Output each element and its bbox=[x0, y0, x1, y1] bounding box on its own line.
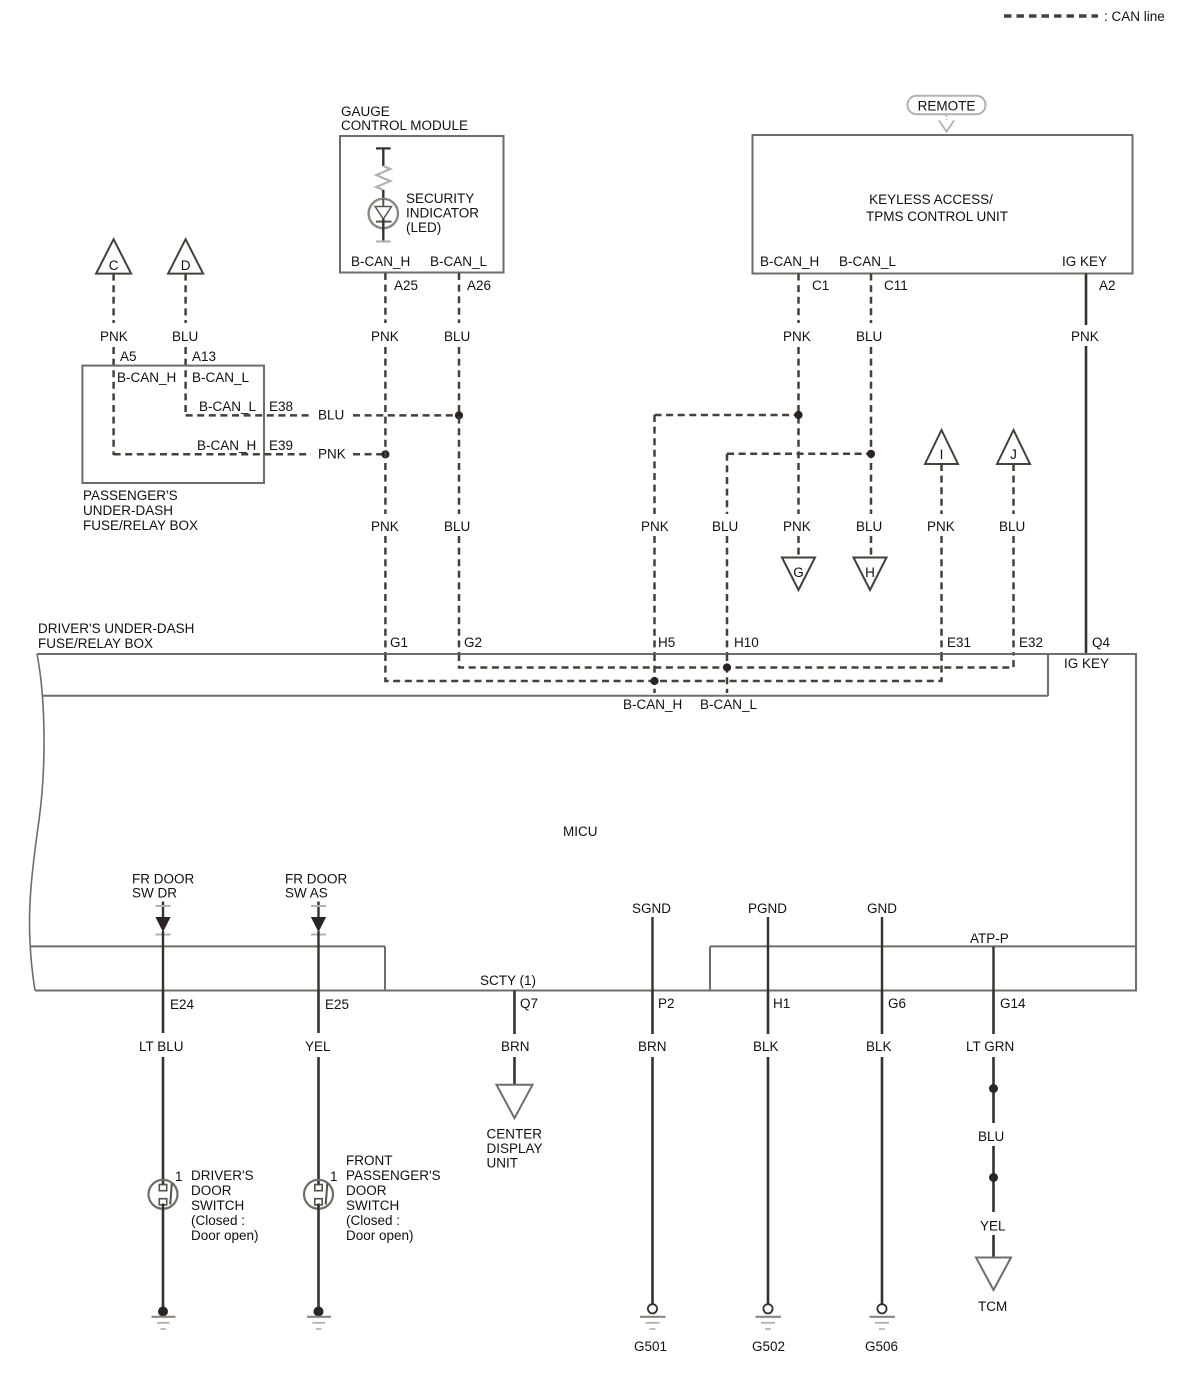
wire horizontal PNK row to H5 bbox=[655, 414, 799, 417]
gauge pin B-CAN_L A26 bbox=[430, 254, 491, 293]
wire resistor to LED bbox=[382, 190, 384, 199]
svg-text:SCTY (1): SCTY (1) bbox=[480, 973, 536, 988]
svg-text:PGND: PGND bbox=[748, 901, 787, 916]
svg-text:B-CAN_H: B-CAN_H bbox=[117, 370, 176, 385]
svg-text:FR DOOR: FR DOOR bbox=[132, 872, 194, 887]
svg-text:TCM: TCM bbox=[978, 1299, 1007, 1314]
gauge pin B-CAN_H A25 bbox=[351, 254, 418, 293]
svg-text:FUSE/RELAY BOX: FUSE/RELAY BOX bbox=[38, 636, 153, 651]
inner partition line of driver box top band bbox=[42, 654, 1109, 696]
svg-text:BLU: BLU bbox=[856, 329, 882, 344]
keyless pin IG KEY A2 bbox=[1062, 254, 1116, 293]
B-CAN_L bus (upper, BLU) G2-H10-E32 bbox=[459, 654, 1014, 668]
ground G506 bbox=[865, 1304, 898, 1354]
junction dot H10 on B-CAN_L bus bbox=[723, 663, 731, 671]
svg-text:J: J bbox=[1010, 447, 1017, 462]
wire horizontal BLU row to H10 bbox=[727, 453, 871, 456]
svg-text:G2: G2 bbox=[464, 635, 482, 650]
svg-text:H1: H1 bbox=[773, 996, 790, 1011]
svg-text:ATP-P: ATP-P bbox=[970, 931, 1009, 946]
svg-text:A13: A13 bbox=[192, 349, 216, 364]
H5 stub wire B-CAN_H bbox=[623, 654, 682, 712]
svg-text:C1: C1 bbox=[812, 278, 829, 293]
wire H1 BLK to ground G502 bbox=[753, 991, 790, 1305]
svg-text:A2: A2 bbox=[1099, 278, 1116, 293]
svg-text:PNK: PNK bbox=[371, 519, 399, 534]
wire J BLU to E32 bbox=[999, 464, 1043, 654]
junction dot H5 on B-CAN_H bus bbox=[650, 677, 658, 685]
svg-text:SECURITY: SECURITY bbox=[406, 191, 474, 206]
connector I triangle bbox=[925, 430, 958, 464]
svg-text:B-CAN_H: B-CAN_H bbox=[197, 438, 256, 453]
driver's under-dash fuse/relay box outline bbox=[29, 621, 1136, 991]
svg-text:G1: G1 bbox=[390, 635, 408, 650]
svg-text:BRN: BRN bbox=[501, 1039, 530, 1054]
front passenger's door switch S2 bbox=[304, 1153, 441, 1243]
svg-text:YEL: YEL bbox=[305, 1039, 331, 1054]
pin ATP-P label and wire bbox=[970, 931, 1009, 991]
svg-text:PNK: PNK bbox=[783, 329, 811, 344]
svg-text:MICU: MICU bbox=[563, 824, 598, 839]
connector D triangle bbox=[168, 239, 203, 273]
svg-text:D: D bbox=[181, 258, 191, 273]
wire B-CAN_L E38 BLU horizontal bbox=[186, 399, 459, 423]
junction dot E38/BLU at A26 wire bbox=[455, 411, 463, 419]
svg-text:SGND: SGND bbox=[632, 901, 671, 916]
B-CAN_H bus (lower, PNK) G1-H5-E31 bbox=[385, 654, 941, 681]
svg-text:GND: GND bbox=[867, 901, 897, 916]
LED security indicator bbox=[369, 199, 398, 228]
pin SCTY (1) label bbox=[480, 973, 536, 988]
svg-text:IG KEY: IG KEY bbox=[1064, 656, 1109, 671]
svg-text:DRIVER'S UNDER-DASH: DRIVER'S UNDER-DASH bbox=[38, 621, 194, 636]
wire A25 PNK vertical to G1 bbox=[371, 273, 408, 654]
svg-text:B-CAN_L: B-CAN_L bbox=[192, 370, 250, 385]
svg-text:DRIVER'S: DRIVER'S bbox=[191, 1168, 254, 1183]
svg-text:FUSE/RELAY BOX: FUSE/RELAY BOX bbox=[83, 518, 198, 533]
connector G triangle bbox=[782, 558, 815, 591]
svg-text:A5: A5 bbox=[120, 349, 137, 364]
wire YEL segment bbox=[980, 1219, 1006, 1258]
svg-text:PNK: PNK bbox=[641, 519, 669, 534]
svg-text:B-CAN_H: B-CAN_H bbox=[351, 254, 410, 269]
svg-text:B-CAN_H: B-CAN_H bbox=[623, 697, 682, 712]
svg-text:PNK: PNK bbox=[783, 519, 811, 534]
passenger under-dash fuse/relay box bbox=[82, 366, 264, 533]
svg-text:REMOTE: REMOTE bbox=[918, 99, 976, 114]
svg-text:P2: P2 bbox=[658, 996, 675, 1011]
svg-text:G501: G501 bbox=[634, 1339, 667, 1354]
wire switch to ground bbox=[162, 1204, 165, 1312]
svg-text:A26: A26 bbox=[467, 278, 491, 293]
svg-text:SWITCH: SWITCH bbox=[346, 1198, 399, 1213]
svg-text:UNIT: UNIT bbox=[487, 1156, 519, 1171]
svg-text:LT BLU: LT BLU bbox=[139, 1039, 184, 1054]
svg-text:KEYLESS ACCESS/: KEYLESS ACCESS/ bbox=[869, 192, 993, 207]
gauge control module box bbox=[340, 104, 504, 273]
wire G6 BLK to ground G506 bbox=[866, 991, 906, 1305]
svg-text:C11: C11 bbox=[884, 278, 908, 293]
wire A26 BLU vertical to G2 bbox=[444, 273, 482, 654]
svg-text:E25: E25 bbox=[325, 997, 349, 1012]
svg-text:BLU: BLU bbox=[856, 519, 882, 534]
wire E24 LT BLU to driver door switch bbox=[139, 991, 195, 1186]
FR DOOR SW DR input arrow bbox=[132, 872, 194, 991]
svg-text:CONTROL MODULE: CONTROL MODULE bbox=[341, 118, 468, 133]
junction dot E39/PNK at A25 wire bbox=[381, 450, 389, 458]
wire H10 vertical BLU bbox=[712, 454, 759, 654]
svg-text:: CAN line: : CAN line bbox=[1104, 9, 1165, 24]
svg-text:BLU: BLU bbox=[444, 329, 470, 344]
svg-text:Door open): Door open) bbox=[346, 1228, 414, 1243]
svg-text:G14: G14 bbox=[1000, 996, 1026, 1011]
wire Q7 BRN to center display unit bbox=[501, 991, 538, 1085]
svg-text:PNK: PNK bbox=[318, 447, 346, 462]
wire LED to bottom tick bbox=[376, 219, 391, 242]
keyless access / TPMS control unit box bbox=[753, 135, 1133, 274]
pin PGND label and wire bbox=[748, 901, 787, 991]
svg-text:B-CAN_L: B-CAN_L bbox=[199, 399, 257, 414]
svg-text:Q4: Q4 bbox=[1092, 635, 1111, 650]
svg-text:PNK: PNK bbox=[927, 519, 955, 534]
svg-text:UNDER-DASH: UNDER-DASH bbox=[83, 503, 173, 518]
svg-text:BLU: BLU bbox=[172, 329, 198, 344]
keyless pin B-CAN_H C1 bbox=[760, 254, 829, 293]
svg-text:B-CAN_L: B-CAN_L bbox=[430, 254, 488, 269]
svg-text:B-CAN_H: B-CAN_H bbox=[760, 254, 819, 269]
wire B-CAN_H E39 PNK horizontal bbox=[114, 438, 386, 462]
svg-text:FRONT: FRONT bbox=[346, 1153, 393, 1168]
svg-text:PASSENGER'S: PASSENGER'S bbox=[83, 488, 178, 503]
svg-text:E38: E38 bbox=[269, 399, 293, 414]
wire IG KEY A2 to Q4 solid PNK bbox=[1071, 274, 1111, 655]
legend: CAN line bbox=[1004, 9, 1165, 24]
pin SGND label and wire bbox=[632, 901, 671, 991]
pin GND label and wire bbox=[867, 901, 897, 991]
svg-text:(Closed :: (Closed : bbox=[191, 1213, 245, 1228]
svg-text:BLU: BLU bbox=[318, 408, 344, 423]
FR DOOR SW AS input arrow bbox=[285, 872, 347, 991]
svg-text:BLU: BLU bbox=[444, 519, 470, 534]
H10 stub wire B-CAN_L bbox=[700, 654, 758, 712]
svg-text:CENTER: CENTER bbox=[487, 1127, 543, 1142]
svg-text:SW AS: SW AS bbox=[285, 886, 328, 901]
svg-text:1: 1 bbox=[175, 1169, 183, 1184]
wire switch to ground bbox=[317, 1204, 320, 1312]
svg-text:B-CAN_L: B-CAN_L bbox=[839, 254, 897, 269]
svg-text:G6: G6 bbox=[888, 996, 906, 1011]
svg-text:PNK: PNK bbox=[100, 329, 128, 344]
svg-text:GAUGE: GAUGE bbox=[341, 104, 390, 119]
resistor (security indicator series resistor) bbox=[376, 166, 390, 190]
connector C triangle bbox=[96, 239, 131, 273]
right sub-module box (grounds/ATP-P) bbox=[710, 946, 1136, 990]
svg-text:BLK: BLK bbox=[753, 1039, 779, 1054]
svg-text:SW DR: SW DR bbox=[132, 886, 177, 901]
svg-text:(Closed :: (Closed : bbox=[346, 1213, 400, 1228]
svg-text:FR DOOR: FR DOOR bbox=[285, 872, 347, 887]
wire E25 YEL to front passenger door switch bbox=[305, 991, 349, 1186]
svg-text:BLU: BLU bbox=[999, 519, 1025, 534]
connector J triangle bbox=[997, 430, 1030, 464]
svg-text:C: C bbox=[109, 258, 119, 273]
splice dot (LT GRN to BLU) bbox=[989, 1084, 998, 1093]
svg-text:DOOR: DOOR bbox=[346, 1183, 387, 1198]
center display unit triangle bbox=[487, 1085, 543, 1171]
keyless pin B-CAN_L C11 bbox=[839, 254, 908, 293]
junction dot C1 PNK bbox=[794, 411, 802, 419]
svg-text:E24: E24 bbox=[170, 997, 195, 1012]
REMOTE antenna balloon bbox=[908, 96, 986, 132]
label security indicator bbox=[406, 191, 479, 235]
svg-text:B-CAN_L: B-CAN_L bbox=[700, 697, 758, 712]
svg-text:BLK: BLK bbox=[866, 1039, 892, 1054]
svg-text:LT GRN: LT GRN bbox=[966, 1039, 1014, 1054]
wire C1 PNK vertical bbox=[783, 274, 811, 558]
svg-text:Q7: Q7 bbox=[520, 996, 538, 1011]
svg-text:H5: H5 bbox=[658, 635, 675, 650]
svg-text:A25: A25 bbox=[394, 278, 418, 293]
svg-text:INDICATOR: INDICATOR bbox=[406, 206, 479, 221]
TCM triangle bbox=[976, 1258, 1011, 1315]
svg-text:E31: E31 bbox=[947, 635, 971, 650]
svg-text:PNK: PNK bbox=[371, 329, 399, 344]
svg-text:(LED): (LED) bbox=[406, 220, 441, 235]
svg-text:PASSENGER'S: PASSENGER'S bbox=[346, 1168, 441, 1183]
wire internal to security indicator bbox=[376, 148, 391, 166]
driver's door switch S1 bbox=[149, 1168, 259, 1243]
svg-text:Door open): Door open) bbox=[191, 1228, 259, 1243]
svg-text:H: H bbox=[865, 565, 875, 580]
svg-text:DISPLAY: DISPLAY bbox=[487, 1141, 543, 1156]
wire H5 vertical PNK bbox=[641, 415, 675, 654]
wire G14 LT GRN / BLU / YEL to TCM bbox=[966, 991, 1026, 1124]
svg-text:E32: E32 bbox=[1019, 635, 1043, 650]
svg-text:G: G bbox=[793, 565, 804, 580]
MICU label bbox=[563, 824, 598, 839]
svg-text:BRN: BRN bbox=[638, 1039, 667, 1054]
svg-text:G502: G502 bbox=[752, 1339, 785, 1354]
svg-text:1: 1 bbox=[330, 1169, 338, 1184]
svg-text:H10: H10 bbox=[734, 635, 759, 650]
wire from connector C, PNK, B-CAN_H bbox=[100, 274, 137, 455]
svg-text:BLU: BLU bbox=[712, 519, 738, 534]
svg-text:SWITCH: SWITCH bbox=[191, 1198, 244, 1213]
wire BLU segment bbox=[978, 1129, 1004, 1212]
ground (passenger door switch) bbox=[307, 1307, 331, 1330]
svg-text:E39: E39 bbox=[269, 438, 293, 453]
wire I PNK to E31 bbox=[927, 464, 971, 654]
ground G501 bbox=[634, 1304, 667, 1354]
ground G502 bbox=[752, 1304, 785, 1354]
svg-text:BLU: BLU bbox=[978, 1129, 1004, 1144]
wire P2 BRN to ground G501 bbox=[638, 991, 675, 1305]
wire C11 BLU vertical bbox=[856, 274, 882, 558]
wire from connector D, BLU, B-CAN_L bbox=[172, 274, 216, 416]
ground (driver door switch) bbox=[152, 1307, 176, 1330]
svg-text:DOOR: DOOR bbox=[191, 1183, 232, 1198]
splice dot (BLU to YEL) bbox=[989, 1173, 998, 1182]
junction dot C11 BLU bbox=[867, 450, 875, 458]
svg-text:TPMS CONTROL UNIT: TPMS CONTROL UNIT bbox=[866, 209, 1008, 224]
connector H triangle bbox=[854, 558, 887, 591]
left sub-module box (door switch inputs) bbox=[30, 946, 385, 990]
svg-text:I: I bbox=[940, 447, 944, 462]
svg-text:YEL: YEL bbox=[980, 1219, 1006, 1234]
svg-text:G506: G506 bbox=[865, 1339, 898, 1354]
svg-text:PNK: PNK bbox=[1071, 329, 1099, 344]
svg-text:IG KEY: IG KEY bbox=[1062, 254, 1107, 269]
